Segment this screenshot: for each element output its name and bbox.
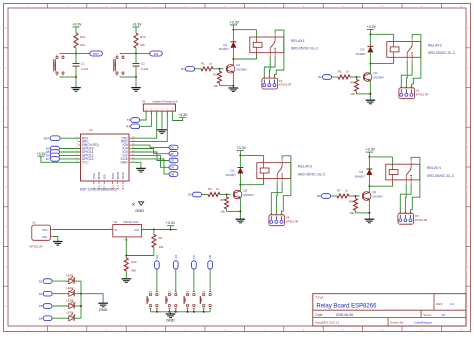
svg-text:SW4: SW4: [201, 297, 203, 303]
ground GND (buttons): [166, 312, 176, 323]
svg-text:12: 12: [112, 186, 114, 188]
svg-text:D3: D3: [170, 159, 174, 163]
wire (P1 to U1 RXD): [132, 111, 168, 142]
svg-text:1N4007: 1N4007: [225, 173, 236, 177]
svg-text:R9: R9: [158, 236, 162, 240]
svg-text:0.1uF: 0.1uF: [81, 67, 89, 71]
svg-text:VCC: VCC: [82, 160, 89, 164]
svg-text:+3.3V: +3.3V: [178, 113, 188, 117]
svg-text:+3.3V: +3.3V: [132, 23, 142, 27]
svg-text:D2: D2: [170, 152, 174, 156]
ground (RELAY3 driver): [237, 146, 247, 155]
svg-text:Q2: Q2: [373, 71, 377, 75]
svg-text:+3.3V: +3.3V: [366, 148, 376, 152]
svg-text:R5: R5: [208, 187, 212, 191]
svg-text:RELAY4: RELAY4: [427, 166, 441, 170]
svg-text:LED4: LED4: [66, 311, 74, 315]
svg-text:10k: 10k: [213, 84, 218, 88]
power flag +3.3V (P1): [173, 111, 188, 120]
svg-text:P1: P1: [142, 100, 146, 104]
svg-text:D1: D1: [170, 146, 174, 150]
svg-text:1N4007: 1N4007: [218, 47, 229, 51]
svg-text:MOSI: MOSI: [116, 172, 120, 180]
svg-text:KF301-3P: KF301-3P: [415, 218, 428, 222]
svg-text:10k: 10k: [80, 43, 85, 47]
svg-text:D2: D2: [39, 292, 43, 296]
resistor R10 560: [124, 258, 137, 278]
svg-text:R10: R10: [131, 260, 137, 264]
power flag +3.3V (regulator output): [166, 221, 176, 229]
svg-text:11: 11: [103, 186, 105, 188]
svg-text:C2: C2: [141, 62, 145, 66]
svg-text:R4: R4: [350, 81, 354, 85]
connector X1 KF301-2P: [30, 221, 53, 249]
resistor R9 330: [152, 230, 164, 256]
svg-text:Date:: Date:: [315, 313, 323, 317]
node D4 (button): [174, 255, 179, 292]
svg-text:Q3: Q3: [243, 189, 247, 193]
wire: [142, 229, 177, 231]
LED LED4: [66, 311, 81, 321]
svg-text:D7: D7: [192, 255, 196, 259]
svg-text:D6: D6: [39, 316, 43, 320]
node D6 (LED): [39, 316, 69, 321]
svg-text:2N3904: 2N3904: [372, 195, 383, 199]
svg-text:IO9: IO9: [102, 174, 106, 179]
pushbutton SW3: [184, 292, 195, 312]
svg-text:KF301-2P: KF301-2P: [30, 244, 43, 248]
svg-text:CS0: CS0: [92, 173, 96, 179]
svg-text:RX: RX: [126, 125, 130, 129]
wire (LED common rail): [80, 281, 82, 318]
svg-text:SRD-05VDC-SL-C: SRD-05VDC-SL-C: [298, 172, 326, 176]
svg-text:OUT: OUT: [134, 229, 140, 232]
svg-text:PIN2: PIN2: [42, 229, 48, 232]
ground (RELAY4 driver): [366, 148, 376, 157]
svg-text:LED1: LED1: [66, 274, 74, 278]
ground: [72, 23, 82, 33]
node GND (net port): [132, 202, 144, 213]
IC U1 ESP-12F(ESP8266MOD): [76, 128, 134, 191]
svg-text:10k: 10k: [349, 211, 354, 215]
svg-text:+3.3V: +3.3V: [72, 23, 82, 27]
svg-text:D5: D5: [188, 193, 192, 197]
pushbutton SW1: [147, 292, 158, 312]
LED LED3: [66, 298, 81, 308]
svg-text:D5: D5: [39, 304, 43, 308]
svg-text:Q4: Q4: [372, 190, 376, 194]
ground (RELAY1 driver): [230, 21, 240, 30]
svg-text:SRD-05VDC-SL-C: SRD-05VDC-SL-C: [428, 51, 456, 55]
node D5 (to U1): [46, 150, 81, 155]
svg-text:1N4007: 1N4007: [354, 174, 365, 178]
svg-text:1/1: 1/1: [441, 313, 446, 317]
node D0 (button): [208, 255, 213, 292]
node D7 (button): [192, 255, 197, 292]
title block: [313, 294, 466, 326]
regulator U2 LM1117-DG: [110, 220, 144, 241]
svg-text:U1: U1: [89, 128, 93, 132]
svg-text:D1: D1: [39, 279, 43, 283]
node RX (P1): [126, 111, 151, 129]
svg-text:13: 13: [117, 186, 119, 188]
svg-text:GND: GND: [99, 307, 108, 312]
svg-text:TITLE:: TITLE:: [315, 296, 324, 300]
node D3 (button): [155, 255, 160, 292]
svg-text:LED3: LED3: [66, 298, 74, 302]
svg-text:0.1uF: 0.1uF: [141, 67, 149, 71]
svg-text:330: 330: [158, 245, 163, 249]
svg-text:SW2: SW2: [167, 297, 169, 303]
svg-text:D3: D3: [155, 255, 159, 259]
svg-text:Relay Board ESP8266: Relay Board ESP8266: [316, 304, 377, 310]
node D3 (from U1): [132, 152, 178, 163]
svg-text:MISO: MISO: [97, 171, 101, 179]
svg-text:RELAY3: RELAY3: [298, 165, 312, 169]
node D2 (LED): [39, 291, 69, 296]
svg-text:SW3: SW3: [185, 297, 187, 303]
node D1 (from U1): [132, 145, 178, 150]
svg-text:C1: C1: [81, 62, 85, 66]
svg-text:R3: R3: [338, 70, 342, 74]
LED LED2: [66, 286, 81, 296]
svg-text:14: 14: [122, 186, 124, 188]
svg-text:1.0: 1.0: [450, 302, 455, 306]
ground: [132, 23, 142, 33]
svg-text:R6: R6: [220, 198, 224, 202]
svg-text:RST: RST: [44, 137, 50, 141]
svg-text:+3.3V: +3.3V: [237, 146, 247, 150]
node D5 (LED): [39, 304, 69, 309]
ground (X1): [53, 237, 63, 246]
svg-text:EN: EN: [154, 52, 158, 56]
svg-text:3: 3: [76, 144, 77, 146]
wire: [81, 294, 103, 303]
svg-text:FLASH: FLASH: [114, 61, 117, 68]
svg-text:560: 560: [131, 268, 136, 272]
svg-text:KF301-3P: KF301-3P: [279, 83, 292, 87]
node RST (to U1): [44, 136, 81, 141]
svg-text:R1: R1: [201, 61, 205, 65]
svg-text:D8: D8: [170, 172, 174, 176]
svg-text:+3.3V: +3.3V: [166, 221, 176, 225]
svg-text:RST: RST: [93, 52, 99, 56]
svg-text:KF301-3P: KF301-3P: [416, 92, 429, 96]
ground (U1 GND pin): [132, 162, 146, 172]
svg-text:+3.3V: +3.3V: [367, 25, 377, 29]
svg-text:2N3904: 2N3904: [243, 193, 254, 197]
svg-text:CobaltDragon: CobaltDragon: [414, 321, 433, 325]
svg-text:RESET: RESET: [55, 61, 57, 69]
svg-text:D7: D7: [46, 157, 50, 161]
pushbutton SW2: [166, 292, 177, 312]
svg-text:R11: R11: [80, 35, 86, 39]
svg-text:2N3904: 2N3904: [236, 67, 247, 71]
node D1 (LED): [39, 279, 69, 284]
svg-text:LED2: LED2: [66, 286, 74, 290]
svg-text:G: G: [467, 266, 469, 268]
ground (RELAY2 driver): [367, 25, 377, 34]
svg-text:R2: R2: [213, 72, 217, 76]
node D8 (from U1): [132, 159, 178, 177]
ground GND (LED rail): [98, 303, 108, 312]
svg-text:GND: GND: [121, 160, 129, 164]
svg-text:U2: U2: [113, 220, 117, 224]
svg-text:D2: D2: [318, 75, 322, 79]
node TX (P1): [127, 111, 146, 122]
wire (button common rail): [151, 311, 211, 313]
svg-text:SRD-05VDC-SL-C: SRD-05VDC-SL-C: [427, 174, 455, 178]
svg-text:9: 9: [93, 186, 94, 188]
ground (regulator): [122, 279, 132, 283]
svg-text:Header-Female-1x6: Header-Female-1x6: [153, 100, 178, 104]
svg-text:IN: IN: [115, 229, 118, 232]
svg-text:GND: GND: [135, 208, 144, 213]
svg-text:10k: 10k: [140, 43, 145, 47]
svg-text:R8: R8: [349, 200, 353, 204]
connector P1 Header-Female-1x6: [142, 100, 178, 115]
svg-text:D0: D0: [208, 255, 212, 259]
svg-text:D4: D4: [174, 255, 178, 259]
svg-text:+3.3V: +3.3V: [37, 152, 47, 156]
node D6 (to U1): [46, 153, 81, 158]
node D7 (to U1): [46, 157, 81, 162]
pushbutton SW4: [200, 292, 211, 312]
svg-text:GND: GND: [166, 317, 175, 322]
wire: [125, 237, 154, 258]
svg-text:KF301-3P: KF301-3P: [286, 219, 299, 223]
svg-text:2: 2: [76, 140, 77, 142]
node D4 (from U1): [132, 155, 178, 169]
svg-text:PIN1: PIN1: [42, 236, 48, 239]
svg-text:10: 10: [98, 186, 100, 188]
svg-text:SCLK: SCLK: [121, 172, 125, 180]
ground (P1): [157, 111, 167, 133]
node D2 (from U1): [132, 149, 178, 157]
svg-text:EasyEDA V5.5.12: EasyEDA V5.5.12: [315, 321, 339, 325]
node D0 (to U1): [46, 146, 81, 151]
svg-text:+3.3V: +3.3V: [230, 21, 240, 25]
svg-text:RELAY2: RELAY2: [428, 44, 442, 48]
power flag +3.3V (U1 VCC): [37, 152, 81, 163]
wire (P1 to U1 TXD): [132, 111, 157, 138]
svg-text:SW1: SW1: [148, 297, 150, 303]
svg-text:R7: R7: [337, 189, 341, 193]
svg-text:REV:: REV:: [436, 302, 443, 306]
svg-text:X1: X1: [32, 221, 36, 225]
wire: [53, 229, 113, 231]
svg-text:2N3904: 2N3904: [373, 76, 384, 80]
svg-text:2018-06-06: 2018-06-06: [336, 313, 353, 317]
svg-text:10k: 10k: [220, 210, 225, 214]
svg-text:D4: D4: [170, 166, 174, 170]
svg-text:D1: D1: [181, 67, 185, 71]
svg-text:Drawn By:: Drawn By:: [390, 321, 404, 325]
svg-text:1N4007: 1N4007: [355, 52, 366, 56]
svg-text:SRD-05VDC-SL-C: SRD-05VDC-SL-C: [291, 47, 319, 51]
svg-text:10k: 10k: [350, 92, 355, 96]
svg-text:D6: D6: [317, 194, 321, 198]
svg-text:Sheet:: Sheet:: [423, 313, 432, 317]
svg-text:3: 3: [110, 228, 111, 230]
svg-text:TX: TX: [127, 118, 131, 122]
svg-text:G: G: [5, 266, 7, 268]
svg-text:R12: R12: [140, 35, 146, 39]
svg-text:Q1: Q1: [236, 63, 240, 67]
svg-text:RELAY1: RELAY1: [291, 39, 305, 43]
LED LED1: [66, 274, 81, 284]
svg-text:IO10: IO10: [111, 173, 115, 180]
svg-text:LM1117-DG: LM1117-DG: [123, 220, 140, 224]
